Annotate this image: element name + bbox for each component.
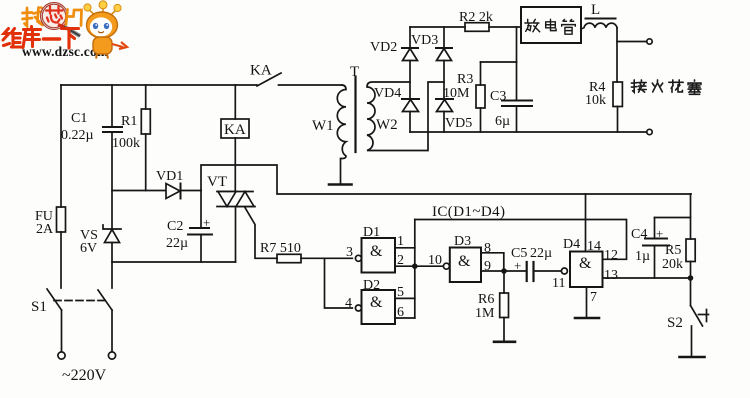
wire S1 left lower lead <box>61 310 63 352</box>
logo mascot <box>58 1 127 59</box>
svg-text:22µ: 22µ <box>166 236 188 251</box>
gate D2 pin5 wire <box>395 297 415 299</box>
svg-text:&: & <box>370 243 383 260</box>
switch S1 left blade <box>47 289 62 310</box>
svg-text:&: & <box>579 255 592 272</box>
wire VS to S1 right pole <box>111 243 113 289</box>
svg-text:KA: KA <box>224 122 246 138</box>
svg-text:20k: 20k <box>662 257 683 272</box>
node C1 column upper <box>111 85 113 127</box>
resistor R5 leads <box>690 194 692 239</box>
wire bottom dc rail <box>112 261 236 263</box>
svg-text:R2 2k: R2 2k <box>459 10 493 25</box>
svg-text:10: 10 <box>428 253 442 268</box>
wire VD4 anode down <box>409 112 411 133</box>
gate D4 pin13 wire / rail to R5 <box>603 277 691 279</box>
svg-text:0.22µ: 0.22µ <box>61 128 94 143</box>
logo text weikuyixia 维库一下 <box>3 27 79 49</box>
ground below S2 <box>680 356 705 359</box>
diode VD3 <box>443 27 445 48</box>
svg-text:VD5: VD5 <box>445 116 472 131</box>
gate D4 pin14 wire <box>585 194 587 252</box>
inductor L core bar <box>586 18 616 20</box>
resistor R1 leads <box>145 85 147 109</box>
wire triac gate <box>245 208 277 259</box>
switch S1 gang dashed link <box>54 300 105 302</box>
svg-text:S1: S1 <box>31 299 47 315</box>
gate D4 pin7 wire <box>586 287 588 317</box>
svg-text:4: 4 <box>345 296 352 311</box>
gate D1 pin1 wire <box>395 247 415 249</box>
svg-text:6µ: 6µ <box>495 114 510 129</box>
ground below R6 <box>494 340 515 343</box>
resistor R7 body <box>277 254 301 262</box>
junction node D3 output <box>501 268 507 274</box>
capacitor C2 plates <box>190 227 209 229</box>
svg-text:100k: 100k <box>112 136 140 151</box>
svg-text:VD1: VD1 <box>156 169 183 184</box>
svg-text:5: 5 <box>397 285 404 300</box>
capacitor C3 leads <box>516 62 518 100</box>
gate D1 pin2 wire <box>395 265 415 267</box>
switch KA contact blade <box>257 73 281 86</box>
svg-text:D2: D2 <box>363 278 380 293</box>
wire C2 node up and over to IC rail <box>201 165 691 194</box>
svg-text:+: + <box>514 258 521 273</box>
discharge tube chinese label 放电管 <box>525 19 575 34</box>
spark plug chinese label 接火花塞 <box>631 80 701 94</box>
terminal circle right <box>108 352 115 359</box>
svg-text:8: 8 <box>484 241 491 256</box>
svg-text:1: 1 <box>397 234 404 249</box>
svg-text:W1: W1 <box>312 118 334 134</box>
wire node row y190 <box>112 190 166 192</box>
svg-text:T: T <box>350 64 359 80</box>
svg-text:+: + <box>656 226 663 241</box>
diode VD5 <box>436 98 453 100</box>
transformer core <box>354 77 356 152</box>
svg-text:C2: C2 <box>167 219 183 234</box>
svg-text:VT: VT <box>207 174 227 190</box>
logo char zhao 找 <box>23 8 44 27</box>
capacitor C4 lower lead <box>654 246 656 279</box>
wire S1 right lower lead <box>111 310 113 352</box>
diode VD4 <box>402 98 419 100</box>
logo magnifier with xin 芯 <box>41 3 80 36</box>
svg-text:&: & <box>370 294 383 311</box>
switch S2 tick mark <box>699 314 709 316</box>
capacitor C1 plates <box>103 126 122 128</box>
svg-text:~220V: ~220V <box>62 367 107 384</box>
relay coil KA lead upper <box>234 85 236 119</box>
terminal circle spark top <box>647 39 652 44</box>
wire R2 to tube <box>489 26 521 28</box>
gate D4 bubble pin11 <box>561 268 567 274</box>
wire triac MT1 down <box>235 207 237 263</box>
triac VT <box>217 191 253 193</box>
wire VD3 to VD5 <box>443 61 445 100</box>
svg-text:R6: R6 <box>478 292 494 307</box>
resistor R3 leads <box>480 62 482 85</box>
wire R7 to gates <box>301 257 352 259</box>
wire feedback vertical bus <box>414 220 416 319</box>
ground below D4 <box>575 317 599 320</box>
transformer W1 winding <box>337 85 346 184</box>
svg-text:C1: C1 <box>71 111 87 126</box>
wire branch to D2 input <box>325 258 353 308</box>
gate D2 pin6 wire <box>395 317 415 319</box>
svg-text:L: L <box>591 2 600 18</box>
wire left column <box>60 85 62 207</box>
svg-text:KA: KA <box>250 63 272 79</box>
resistor R1 body <box>141 109 150 134</box>
svg-text:13: 13 <box>604 268 618 283</box>
switch S2 blade <box>691 306 703 327</box>
svg-text:22µ: 22µ <box>530 246 552 261</box>
resistor R4 body <box>613 82 622 107</box>
svg-text:R7 510: R7 510 <box>260 241 301 256</box>
svg-text:C4: C4 <box>631 227 647 242</box>
switch S2 lower lead <box>691 326 693 357</box>
svg-text:VD2: VD2 <box>370 40 397 55</box>
resistor R3 body <box>476 85 485 108</box>
wire hv top rail <box>410 26 465 28</box>
fuse FU1 body <box>57 207 66 232</box>
wire top rail right to transformer <box>279 84 343 86</box>
wire VD1 to C2 node <box>181 190 202 192</box>
svg-text:D1: D1 <box>363 225 380 240</box>
svg-text:C3: C3 <box>490 89 506 104</box>
wire D3 out to C5 <box>504 270 526 272</box>
svg-text:IC(D1~D4): IC(D1~D4) <box>432 204 505 220</box>
svg-text:2A: 2A <box>36 222 54 237</box>
junction node at D1 output <box>412 263 418 269</box>
resistor R4 lower lead <box>617 107 619 133</box>
resistor R5 body <box>686 239 695 262</box>
svg-text:S2: S2 <box>667 315 683 331</box>
terminal circle spark bottom <box>647 129 652 134</box>
svg-text:+: + <box>203 215 210 230</box>
svg-text:D3: D3 <box>454 234 471 249</box>
discharge tube box <box>521 7 581 43</box>
diode VD1 <box>166 184 180 199</box>
svg-text:14: 14 <box>587 239 601 254</box>
svg-text:R1: R1 <box>121 114 137 129</box>
svg-text:D4: D4 <box>563 237 580 252</box>
resistor R6 leads <box>503 271 505 293</box>
wire hv bottom rail <box>410 131 646 133</box>
wire C5 to D4 pin11 <box>534 270 562 272</box>
switch S2 upper lead <box>690 278 692 306</box>
transformer W2 winding <box>367 82 444 151</box>
capacitor C4 upper lead and link to R5 <box>655 217 691 219</box>
svg-text:2: 2 <box>397 253 404 268</box>
switch S1 right blade <box>98 290 112 310</box>
wire tap to R3 C3 <box>516 27 518 62</box>
svg-text:1M: 1M <box>475 306 495 321</box>
svg-text:6: 6 <box>397 305 404 320</box>
relay coil KA box <box>221 119 249 138</box>
svg-text:W2: W2 <box>376 117 398 133</box>
wire VD5 anode down <box>443 112 445 133</box>
wire KA coil to triac <box>234 138 236 192</box>
zener diode VS <box>103 225 121 229</box>
svg-text:11: 11 <box>552 276 565 291</box>
junction node R5 bottom <box>688 275 694 281</box>
svg-text:1µ: 1µ <box>635 249 650 264</box>
resistor R6 body <box>500 293 509 318</box>
wire top rail left <box>61 84 257 86</box>
svg-text:6V: 6V <box>80 241 97 256</box>
capacitor C2 leads <box>200 191 202 229</box>
gate D3 pin9 wire <box>481 270 504 272</box>
wire C1 to node <box>111 132 113 229</box>
gate D3 box <box>450 248 481 283</box>
capacitor C5 plates <box>526 262 528 281</box>
svg-text:12: 12 <box>604 248 618 263</box>
svg-text:R3: R3 <box>457 72 473 87</box>
svg-text:&: & <box>458 253 471 270</box>
svg-text:R5: R5 <box>665 243 681 258</box>
svg-text:3: 3 <box>346 245 353 260</box>
svg-text:9: 9 <box>484 259 491 274</box>
gate D1 box <box>362 238 396 273</box>
svg-text:VD4: VD4 <box>374 86 401 101</box>
watermark logo <box>3 1 127 59</box>
resistor R2 body <box>465 23 489 32</box>
capacitor C4 plates <box>645 238 667 240</box>
gate D1 bubble pin3 <box>355 255 361 261</box>
terminal circle left <box>58 352 65 359</box>
gate D3 pin8 wire <box>481 253 504 271</box>
wire VD2 to VD4 <box>409 61 411 100</box>
logo char pian 片 <box>66 10 82 26</box>
gate D4 box <box>570 252 603 288</box>
svg-text:VD3: VD3 <box>411 33 438 48</box>
wire L to output terminal <box>616 28 618 82</box>
gate D2 box <box>362 290 396 324</box>
ground below W1 <box>329 183 352 186</box>
wire FU to S1 <box>60 232 62 288</box>
wire to D3 input <box>415 265 443 267</box>
diode VD2 <box>409 27 411 48</box>
gate D2 bubble pin4 <box>355 305 361 311</box>
wire feedback top run to D4 pin12 <box>415 220 627 260</box>
inductor L winding <box>581 23 617 29</box>
gate D3 bubble pin10 <box>443 263 449 269</box>
svg-text:10M: 10M <box>443 86 470 101</box>
svg-text:7: 7 <box>590 290 597 305</box>
capacitor C3 plates <box>502 100 532 102</box>
svg-text:10k: 10k <box>585 93 606 108</box>
